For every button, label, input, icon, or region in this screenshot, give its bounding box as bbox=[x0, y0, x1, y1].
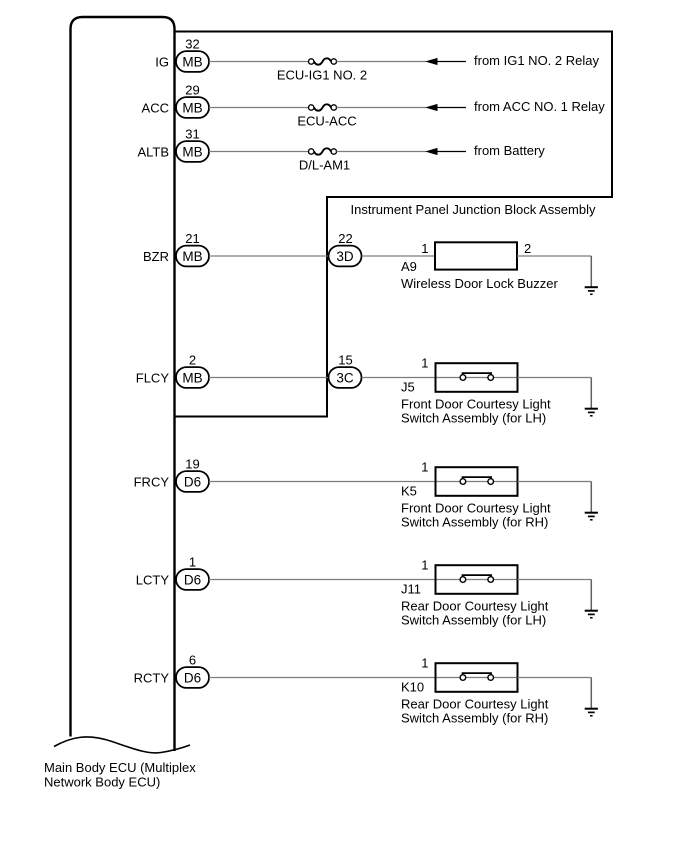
svg-text:MB: MB bbox=[182, 371, 202, 386]
svg-text:LCTY: LCTY bbox=[136, 573, 170, 588]
svg-text:J5: J5 bbox=[401, 380, 415, 395]
svg-text:MB: MB bbox=[182, 101, 202, 116]
pin 6 D6 of ECU (RCTY) bbox=[176, 652, 209, 688]
pin 1 D6 of ECU (LCTY) bbox=[176, 554, 209, 590]
buzzer A9 body bbox=[435, 242, 517, 269]
wire BZR: pin 3D to buzzer pin 1 bbox=[362, 255, 436, 257]
svg-text:IG: IG bbox=[155, 55, 169, 70]
switch J5 body bbox=[436, 363, 518, 392]
wire FLCY: pin MB to junction block pin 3C bbox=[209, 377, 329, 379]
svg-text:2: 2 bbox=[524, 241, 531, 256]
label: Main Body ECU name bbox=[44, 760, 196, 790]
wire LCTY: switch J11 to ground bbox=[518, 579, 592, 581]
wire IG: pin MB to fusible link bbox=[209, 61, 309, 63]
arrow: from Battery bbox=[425, 148, 466, 155]
svg-text:31: 31 bbox=[185, 126, 199, 141]
svg-text:1: 1 bbox=[421, 241, 428, 256]
wire IG: fusible link to arrow bbox=[337, 61, 427, 63]
svg-text:MB: MB bbox=[182, 249, 202, 264]
wire FRCY: switch K5 to ground bbox=[518, 481, 592, 483]
svg-text:ALTB: ALTB bbox=[137, 145, 169, 160]
svg-text:Main Body ECU (Multiplex: Main Body ECU (Multiplex bbox=[44, 760, 196, 775]
svg-text:A9: A9 bbox=[401, 259, 417, 274]
arrow: from ACC NO. 1 Relay bbox=[425, 104, 466, 111]
svg-text:21: 21 bbox=[185, 231, 199, 246]
pin 29 MB of ECU (ACC) bbox=[176, 82, 209, 118]
pin 31 MB of ECU (ALTB) bbox=[176, 126, 209, 162]
fusible link ECU-IG1 NO. 2 bbox=[309, 58, 337, 64]
pin 15 3C of junction block bbox=[329, 352, 362, 388]
svg-text:22: 22 bbox=[338, 231, 352, 246]
svg-text:from IG1 NO. 2 Relay: from IG1 NO. 2 Relay bbox=[474, 53, 599, 68]
svg-text:Rear Door Courtesy Light: Rear Door Courtesy Light bbox=[401, 599, 549, 614]
wire BZR: buzzer pin 2 to ground bbox=[517, 255, 591, 257]
ground for buzzer A9 bbox=[585, 256, 598, 294]
svg-text:29: 29 bbox=[185, 82, 199, 97]
svg-text:BZR: BZR bbox=[143, 249, 169, 264]
svg-text:from Battery: from Battery bbox=[474, 143, 545, 158]
Instrument Panel Junction Block Assembly outline bbox=[175, 32, 612, 417]
svg-text:19: 19 bbox=[185, 456, 199, 471]
svg-text:Instrument Panel Junction Bloc: Instrument Panel Junction Block Assembly bbox=[351, 202, 596, 217]
svg-text:J11: J11 bbox=[401, 582, 421, 597]
svg-text:ECU-ACC: ECU-ACC bbox=[297, 114, 356, 129]
svg-text:FLCY: FLCY bbox=[136, 371, 170, 386]
ground for switch K5 bbox=[585, 482, 598, 520]
svg-text:Switch Assembly (for RH): Switch Assembly (for RH) bbox=[401, 515, 548, 530]
svg-text:1: 1 bbox=[421, 558, 428, 573]
svg-text:1: 1 bbox=[421, 460, 428, 475]
wire ALTB: pin MB to fusible link bbox=[209, 151, 309, 153]
wire ACC: fusible link to arrow bbox=[337, 107, 427, 109]
svg-text:D6: D6 bbox=[184, 671, 201, 686]
svg-text:32: 32 bbox=[185, 36, 199, 51]
ground for switch J11 bbox=[585, 580, 598, 618]
switch K10 body bbox=[436, 663, 518, 692]
svg-text:ACC: ACC bbox=[142, 101, 169, 116]
wire RCTY: pin D6 to switch pin 1 bbox=[209, 677, 436, 679]
svg-text:15: 15 bbox=[338, 352, 352, 367]
svg-text:Front Door Courtesy Light: Front Door Courtesy Light bbox=[401, 501, 551, 516]
svg-text:3D: 3D bbox=[336, 249, 354, 264]
svg-text:Network Body ECU): Network Body ECU) bbox=[44, 775, 160, 790]
svg-text:D/L-AM1: D/L-AM1 bbox=[299, 158, 350, 173]
svg-text:FRCY: FRCY bbox=[134, 475, 170, 490]
svg-text:1: 1 bbox=[189, 554, 196, 569]
wire FLCY: pin 3C to switch pin 1 bbox=[362, 377, 436, 379]
svg-text:D6: D6 bbox=[184, 475, 201, 490]
svg-text:MB: MB bbox=[182, 55, 202, 70]
fusible link ECU-ACC bbox=[309, 104, 337, 110]
svg-text:Front Door Courtesy Light: Front Door Courtesy Light bbox=[401, 397, 551, 412]
svg-text:D6: D6 bbox=[184, 573, 201, 588]
fusible link D/L-AM1 bbox=[309, 148, 337, 154]
arrow: from IG1 NO. 2 Relay bbox=[425, 58, 466, 65]
pin 19 D6 of ECU (FRCY) bbox=[176, 456, 209, 492]
svg-text:Switch Assembly (for LH): Switch Assembly (for LH) bbox=[401, 613, 546, 628]
svg-text:Switch Assembly (for LH): Switch Assembly (for LH) bbox=[401, 411, 546, 426]
svg-text:Rear Door Courtesy Light: Rear Door Courtesy Light bbox=[401, 697, 549, 712]
wire ACC: pin MB to fusible link bbox=[209, 107, 309, 109]
svg-text:RCTY: RCTY bbox=[134, 671, 170, 686]
pin 2 MB of ECU (FLCY) bbox=[176, 352, 209, 388]
svg-text:6: 6 bbox=[189, 652, 196, 667]
wire ALTB: fusible link to arrow bbox=[337, 151, 427, 153]
wire BZR: pin MB to junction block pin 3D bbox=[209, 255, 329, 257]
ECU body: Main Body ECU outline bbox=[54, 17, 190, 753]
svg-text:ECU-IG1 NO. 2: ECU-IG1 NO. 2 bbox=[277, 68, 367, 83]
wire RCTY: switch K10 to ground bbox=[518, 677, 592, 679]
pin 22 3D of junction block bbox=[329, 231, 362, 267]
pin 32 MB of ECU (IG) bbox=[176, 36, 209, 72]
ground for switch K10 bbox=[585, 678, 598, 716]
svg-text:Wireless Door Lock Buzzer: Wireless Door Lock Buzzer bbox=[401, 276, 558, 291]
svg-text:3C: 3C bbox=[336, 371, 354, 386]
svg-text:2: 2 bbox=[189, 352, 196, 367]
svg-text:K10: K10 bbox=[401, 680, 424, 695]
ground for switch J5 bbox=[585, 378, 598, 416]
svg-text:1: 1 bbox=[421, 356, 428, 371]
switch K5 body bbox=[436, 467, 518, 496]
svg-text:1: 1 bbox=[421, 656, 428, 671]
wire FRCY: pin D6 to switch pin 1 bbox=[209, 481, 436, 483]
svg-text:from ACC NO. 1 Relay: from ACC NO. 1 Relay bbox=[474, 99, 605, 114]
svg-text:MB: MB bbox=[182, 145, 202, 160]
wire LCTY: pin D6 to switch pin 1 bbox=[209, 579, 436, 581]
wire FLCY: switch J5 to ground bbox=[518, 377, 592, 379]
svg-text:Switch Assembly (for RH): Switch Assembly (for RH) bbox=[401, 711, 548, 726]
pin 21 MB of ECU (BZR) bbox=[176, 231, 209, 267]
svg-text:K5: K5 bbox=[401, 484, 417, 499]
switch J11 body bbox=[436, 565, 518, 594]
